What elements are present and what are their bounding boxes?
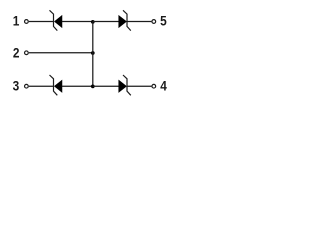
pin label 5: [160, 13, 167, 29]
svg-text:3: 3: [13, 78, 20, 94]
junction node C: [91, 85, 95, 89]
pin label 4: [160, 78, 167, 94]
svg-text:5: 5: [160, 13, 167, 29]
wire D2 cathode to pin 5: [127, 21, 151, 23]
pin label 1: [13, 13, 20, 29]
pin 4 terminal: [152, 84, 156, 88]
pin 5 terminal: [152, 20, 156, 24]
wire node C to D4 anode: [93, 85, 119, 87]
wire D3 anode to node C: [62, 85, 93, 87]
svg-text:1: 1: [13, 13, 20, 29]
junction node B: [91, 51, 95, 55]
wire D4 cathode to pin 4: [127, 85, 151, 87]
wire pin2 to node B: [29, 52, 93, 54]
zener diode D4 (anode left, cathode bar right): [119, 75, 131, 95]
wire node A to D2 anode: [93, 21, 119, 23]
zener diode D1 (cathode bar left, anode right): [50, 10, 62, 30]
svg-text:4: 4: [160, 78, 167, 94]
pin label 3: [13, 78, 20, 94]
zener diode D2 (anode left, cathode bar right): [119, 10, 131, 30]
wire pin3 to D3 cathode: [29, 85, 54, 87]
pin 3 terminal: [25, 84, 29, 88]
zener diode D3 (cathode bar left, anode right): [50, 75, 62, 95]
vertical bus wire node A to node C: [92, 22, 94, 87]
wire D1 anode to node A: [62, 21, 93, 23]
wire pin1 to D1 cathode: [29, 21, 54, 23]
junction node A: [91, 20, 95, 24]
pin label 2: [13, 45, 20, 61]
pin 1 terminal: [25, 20, 29, 24]
svg-text:2: 2: [13, 45, 20, 61]
pin 2 terminal: [25, 51, 29, 55]
